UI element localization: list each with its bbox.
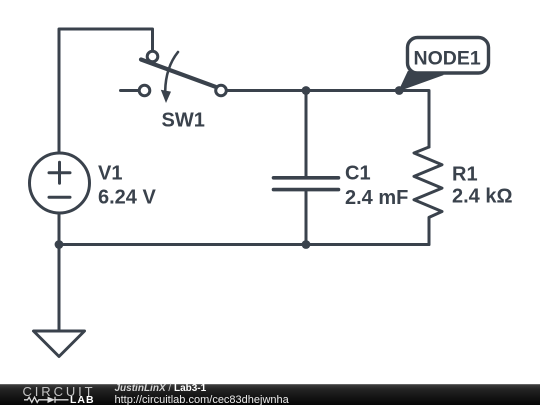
NODE1 pointer wedge <box>399 71 443 90</box>
svg-text:LAB: LAB <box>70 394 95 405</box>
circuitlab logo <box>0 384 110 405</box>
wire: ground stem <box>58 245 61 331</box>
junction dot NODE1 <box>395 86 404 95</box>
svg-text:V1: V1 <box>98 163 122 185</box>
junction dot top C1 <box>302 86 311 95</box>
wire: bottom rail <box>59 243 429 246</box>
svg-text:SW1: SW1 <box>162 110 205 132</box>
node NODE1 callout <box>408 38 489 74</box>
svg-text:R1: R1 <box>452 164 478 186</box>
switch arrow head <box>161 90 171 103</box>
svg-text:NODE1: NODE1 <box>414 48 481 70</box>
voltage source V1 <box>30 153 90 213</box>
svg-text:2.4 kΩ: 2.4 kΩ <box>452 186 513 208</box>
svg-text:2.4 mF: 2.4 mF <box>345 187 408 209</box>
svg-text:6.24 V: 6.24 V <box>98 187 156 209</box>
wire: V1 top up and across to switch <box>59 29 153 153</box>
wire: V1 bottom down to bottom rail <box>58 213 61 245</box>
svg-text:C1: C1 <box>345 163 371 185</box>
capacitor C1 <box>305 91 308 177</box>
wire: switch to node corner and down to R1 <box>227 91 429 148</box>
footer bar <box>0 384 540 405</box>
footer credits <box>113 383 115 385</box>
switch SW1 <box>121 89 139 92</box>
junction dot bottom C1 <box>302 240 311 249</box>
resistor R1 <box>414 147 442 245</box>
junction dot bottom V1 <box>55 240 64 249</box>
ground <box>34 331 85 357</box>
